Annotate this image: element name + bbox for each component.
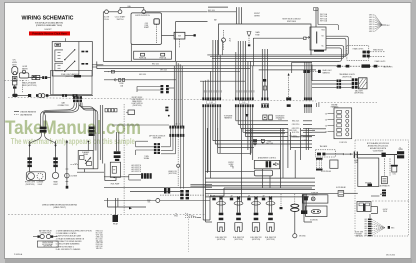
svg-text:PNK 1090: PNK 1090 <box>96 244 103 246</box>
svg-text:1. WIRE HARNESS EQUIPPED WITH: 1. WIRE HARNESS EQUIPPED WITH OPTION <box>56 229 93 232</box>
svg-text:GRN 2215: GRN 2215 <box>292 128 300 130</box>
svg-text:GRN 10: GRN 10 <box>369 26 375 28</box>
svg-text:CHECK WIRE WORKS AT MOUNTING: CHECK WIRE WORKS AT MOUNTING <box>42 203 78 206</box>
svg-text:FRONT LIGHT: FRONT LIGHT <box>25 182 35 184</box>
svg-text:WHT 1040: WHT 1040 <box>96 234 103 236</box>
svg-text:LICENSE: LICENSE <box>70 175 77 177</box>
svg-text:F1: F1 <box>229 39 231 41</box>
svg-text:WIRING SCHEMATIC: WIRING SCHEMATIC <box>22 15 74 21</box>
svg-text:TURN: TURN <box>144 156 148 158</box>
svg-text:TO ENGINE: TO ENGINE <box>224 115 232 117</box>
svg-text:IGNITION SWITCH: IGNITION SWITCH <box>135 15 150 17</box>
svg-text:WIPER: WIPER <box>254 16 260 18</box>
svg-text:GLOW PLUGS: GLOW PLUGS <box>321 171 331 173</box>
svg-text:FRONT WIPER: FRONT WIPER <box>42 242 53 244</box>
svg-text:COIL: COIL <box>393 174 397 176</box>
svg-text:FUEL: FUEL <box>268 141 272 143</box>
svg-text:(W/OPTION): (W/OPTION) <box>168 173 177 175</box>
svg-text:ORN 2210: ORN 2210 <box>292 124 300 126</box>
svg-text:(W/OPTION): (W/OPTION) <box>342 76 352 78</box>
svg-text:FUEL INJECTOR: FUEL INJECTOR <box>215 237 226 239</box>
svg-text:GRN: GRN <box>364 233 367 235</box>
svg-text:FRONT WORK: FRONT WORK <box>132 97 144 99</box>
svg-text:FP: FP <box>113 169 115 171</box>
svg-text:RUN: RUN <box>322 29 325 31</box>
svg-text:(W/OPTION): (W/OPTION) <box>217 239 226 241</box>
svg-text:OFF: OFF <box>145 23 148 25</box>
svg-text:GRN: GRN <box>364 226 367 228</box>
svg-text:BLK 2021: BLK 2021 <box>289 136 296 138</box>
svg-text:METER: METER <box>22 68 28 70</box>
svg-text:(W/OPTION): (W/OPTION) <box>43 246 52 248</box>
svg-text:GRN 10: GRN 10 <box>369 19 375 21</box>
svg-text:RED 1025: RED 1025 <box>96 231 103 233</box>
svg-text:SW: SW <box>178 36 181 38</box>
svg-text:F2: F2 <box>229 41 231 43</box>
svg-text:LICENSE: LICENSE <box>37 182 44 184</box>
svg-text:GRN: GRN <box>364 219 367 221</box>
svg-text:GRN 10: GRN 10 <box>369 17 375 19</box>
svg-text:1 S/N 5224: 1 S/N 5224 <box>339 142 347 144</box>
svg-text:4. RELAY IS ENERGIZED WHEN ON: 4. RELAY IS ENERGIZED WHEN ON <box>56 237 85 240</box>
svg-text:(W/OPTION): (W/OPTION) <box>234 239 243 241</box>
svg-text:(W/OPTION): (W/OPTION) <box>65 76 75 78</box>
svg-text:SHUTOFF: SHUTOFF <box>266 143 273 145</box>
svg-text:LIGHT SWITCH: LIGHT SWITCH <box>131 103 142 105</box>
svg-text:GRN 1050: GRN 1050 <box>96 236 103 238</box>
svg-text:F: F <box>108 71 109 73</box>
svg-text:C-08: C-08 <box>209 102 213 104</box>
svg-text:RED 1010: RED 1010 <box>152 63 159 65</box>
svg-text:ENGINE: ENGINE <box>332 104 338 106</box>
svg-text:V-SOFT: V-SOFT <box>44 29 52 31</box>
svg-text:LIGHT: LIGHT <box>53 184 58 186</box>
svg-text:SWITCHES: SWITCHES <box>153 138 161 140</box>
svg-text:GRN: GRN <box>364 235 367 237</box>
svg-text:LIGHT: LIGHT <box>38 184 43 186</box>
svg-text:BLU 2220: BLU 2220 <box>292 132 299 134</box>
svg-text:GRN: GRN <box>364 221 367 223</box>
svg-text:GRN: GRN <box>364 223 367 225</box>
svg-text:CAB HARNESS: CAB HARNESS <box>20 113 33 116</box>
svg-text:6901 V-3700: 6901 V-3700 <box>386 254 395 256</box>
svg-text:FRONT: FRONT <box>228 162 233 164</box>
svg-text:(W/OPTION): (W/OPTION) <box>276 117 285 119</box>
svg-text:SERVICE: SERVICE <box>356 235 362 237</box>
svg-text:LIGHT SWITCH: LIGHT SWITCH <box>131 99 142 101</box>
svg-text:(W/OPTION): (W/OPTION) <box>26 184 35 186</box>
svg-text:GP: GP <box>248 196 250 198</box>
svg-text:FUEL INJECTOR: FUEL INJECTOR <box>233 237 244 239</box>
svg-text:(W/OPTION): (W/OPTION) <box>266 239 275 241</box>
svg-text:3. SWITCH GROUNDS AT CASE: 3. SWITCH GROUNDS AT CASE <box>56 235 82 238</box>
svg-text:SWITCHES: SWITCHES <box>287 21 297 23</box>
svg-text:ORN 1025: ORN 1025 <box>160 69 167 71</box>
svg-text:(W/OPTION): (W/OPTION) <box>354 93 363 95</box>
svg-text:S/N (S/N A4JT100 AND ABOVE): S/N (S/N A4JT100 AND ABOVE) <box>35 21 63 24</box>
svg-text:GRN 10: GRN 10 <box>369 29 375 31</box>
svg-text:RED 2025: RED 2025 <box>292 121 299 123</box>
svg-text:NOTE: SEE: NOTE: SEE <box>355 232 363 234</box>
svg-text:7. SEE NOTES PAGE 2: 7. SEE NOTES PAGE 2 <box>56 245 74 248</box>
svg-text:(USED TEXT): (USED TEXT) <box>53 207 66 209</box>
svg-text:CONNECTOR: CONNECTOR <box>58 105 70 107</box>
svg-text:HIGH FLOW: HIGH FLOW <box>168 171 177 173</box>
svg-text:C-09: C-09 <box>242 102 246 104</box>
svg-text:PLUG: PLUG <box>104 19 109 21</box>
svg-text:(W/OPTION): (W/OPTION) <box>133 105 142 107</box>
svg-text:2. FUSE PANEL LOCATED: 2. FUSE PANEL LOCATED <box>56 232 77 235</box>
svg-text:FUSE: FUSE <box>354 160 358 162</box>
svg-text:GRN 1030: GRN 1030 <box>139 74 146 76</box>
svg-text:ORN 1080: ORN 1080 <box>96 242 103 244</box>
svg-text:V2203 ENGINE: V2203 ENGINE <box>373 150 384 152</box>
svg-text:GRN 10: GRN 10 <box>369 22 375 24</box>
svg-text:SOL: SOL <box>147 202 150 204</box>
svg-text:RED 1010: RED 1010 <box>208 10 215 12</box>
svg-text:SOLENOID: SOLENOID <box>310 220 319 222</box>
svg-text:1 2 3 4 5: 1 2 3 4 5 <box>174 124 180 126</box>
svg-text:ENGINE: ENGINE <box>356 234 362 236</box>
svg-text:GROUND: GROUND <box>299 236 307 238</box>
svg-text:8. ALL GROUNDS TO CHASSIS: 8. ALL GROUNDS TO CHASSIS <box>56 248 81 251</box>
svg-text:LEFT SIDE CONSOLE: LEFT SIDE CONSOLE <box>149 135 165 137</box>
svg-text:(W/OPTION): (W/OPTION) <box>252 239 261 241</box>
svg-text:GP: GP <box>262 196 264 198</box>
svg-text:GRN: GRN <box>364 228 367 230</box>
svg-text:GRY 1100: GRY 1100 <box>96 246 103 248</box>
svg-text:6. CIRCUITS ARE NUMBERED: 6. CIRCUITS ARE NUMBERED <box>56 243 81 246</box>
svg-text:YEL 1070: YEL 1070 <box>96 240 103 242</box>
svg-text:Printable Version Click Here: Printable Version Click Here <box>32 32 67 36</box>
svg-text:GRN 10: GRN 10 <box>369 15 375 17</box>
svg-text:FUEL PUMP: FUEL PUMP <box>111 184 120 186</box>
svg-text:FUSE: FUSE <box>119 83 123 85</box>
svg-text:B+: B+ <box>400 147 402 149</box>
svg-text:(PRINTED FEBRUARY 2008): (PRINTED FEBRUARY 2008) <box>36 24 62 27</box>
svg-text:BLU 1060: BLU 1060 <box>96 238 103 240</box>
svg-text:GP: GP <box>213 196 215 198</box>
svg-text:GP: GP <box>230 196 232 198</box>
svg-text:FUSE: FUSE <box>255 34 259 36</box>
svg-text:FUEL INJECTOR: FUEL INJECTOR <box>250 237 261 239</box>
svg-text:SWITCH: SWITCH <box>117 19 124 21</box>
svg-text:RED 2020: RED 2020 <box>289 130 296 132</box>
svg-text:CHASSIS HARNESS: CHASSIS HARNESS <box>20 110 37 113</box>
svg-text:GRN: GRN <box>364 230 367 232</box>
svg-text:GRN 10: GRN 10 <box>369 31 375 33</box>
svg-text:FUEL INJECTOR: FUEL INJECTOR <box>265 237 276 239</box>
svg-text:12V: 12V <box>74 164 77 166</box>
svg-text:LINK: LINK <box>354 162 357 164</box>
svg-text:HORN: HORN <box>12 62 18 64</box>
svg-text:GLOW: GLOW <box>383 209 388 211</box>
svg-text:BLK 1030: BLK 1030 <box>96 232 103 234</box>
svg-text:P-90816-A: P-90816-A <box>14 253 23 256</box>
svg-text:GRN 10: GRN 10 <box>369 24 375 26</box>
